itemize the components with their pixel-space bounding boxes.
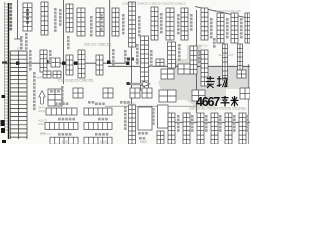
rack top-8 (181, 8, 188, 40)
ladder rack right-B (238, 44, 243, 70)
text column 18 (150, 50, 153, 67)
junction blob 1 (16, 62, 19, 65)
text column 10 (177, 14, 180, 34)
svg-text:9600: 9600 (100, 140, 107, 144)
rack bottom-right-6 (239, 113, 246, 144)
text column 13 (226, 18, 229, 38)
rack bottom-right-2 (183, 113, 190, 144)
text column 34 (233, 115, 236, 132)
right arrow (130, 81, 150, 86)
text column 28 (152, 108, 155, 125)
table left-b (53, 71, 61, 78)
left wall tick (2, 62, 7, 64)
table gray-c (159, 90, 176, 102)
table gray-a (161, 69, 174, 79)
text column 6 (100, 14, 103, 31)
text column 31 (191, 115, 194, 132)
junction blob 5 (126, 62, 129, 65)
text column 22 (29, 50, 32, 70)
rack top-7 (166, 8, 174, 40)
table gray-b (178, 64, 190, 74)
rack top-6 (151, 7, 158, 40)
svg-text:C19 C23(C22) C24(C25): C19 C23(C22) C24(C25) (58, 79, 93, 83)
svg-text:SEN2(C4)T: SEN2(C4)T (218, 53, 234, 57)
table left-c (48, 89, 62, 100)
shaded region right patch (215, 89, 226, 101)
wall x131 (131, 47, 133, 105)
table center-b (103, 88, 113, 98)
rack top-3 (77, 8, 85, 36)
text column 17 (136, 44, 139, 64)
rack mid-right-2 (201, 50, 208, 86)
text column 11 (190, 14, 193, 31)
shaded region top column (187, 45, 201, 67)
svg-text:A40 C32: A40 C32 (124, 102, 136, 106)
stockroom rect b (158, 105, 169, 128)
shelf bottom row2-b (84, 123, 112, 130)
label wenju (55, 103, 68, 106)
svg-text:C42(C43)(C44) C45: C42(C43)(C44) C45 (214, 9, 241, 13)
rack top-4 (96, 8, 104, 36)
svg-text:C34: C34 (40, 131, 46, 135)
text column 33 (219, 115, 222, 132)
svg-text:A4C2: A4C2 (38, 122, 46, 126)
text 平 (ping) (221, 96, 230, 107)
text column 7 (122, 14, 125, 34)
text column 21 (33, 72, 36, 110)
rack top-10 (217, 13, 224, 43)
shelf bottom row3-b (84, 137, 112, 144)
rack top-11 (231, 13, 238, 43)
text column 30 (177, 115, 180, 132)
text column 32 (205, 115, 208, 132)
staircase (10, 51, 27, 139)
label zuleng (95, 103, 105, 106)
shelf bottom row3-a (50, 137, 78, 144)
dark label chu-qin (127, 58, 134, 61)
svg-text:C26 C27 C28(C29): C26 C27 C28(C29) (84, 43, 111, 47)
text column 8 (138, 16, 141, 36)
table left-a (43, 71, 51, 78)
wall x196 (196, 10, 198, 113)
rack bottom-right-5 (225, 113, 232, 144)
text column 27 (213, 38, 216, 48)
text column 26 (61, 86, 64, 103)
text column 1 (10, 3, 13, 30)
text column 2 (25, 33, 28, 50)
rack mid-right-1 (190, 46, 197, 74)
right border (247, 64, 249, 144)
roof diagonal (195, 7, 250, 19)
rack mid-5 (168, 42, 176, 68)
text column 25 (67, 36, 70, 49)
text inside rack top-1 (26, 9, 29, 24)
rack tall center-lower (141, 36, 149, 90)
rack bottom-right-4 (211, 113, 218, 144)
left edge mark 2 (1, 120, 5, 126)
shelf bottom row1-a (46, 108, 77, 115)
text column 12 (210, 18, 213, 38)
left edge mark 3 (1, 128, 5, 133)
table center-c (130, 88, 140, 98)
junction blob 4 (107, 61, 110, 64)
stair-side blob (46, 60, 49, 63)
svg-text:C17: C17 (17, 47, 23, 51)
table left-c lower (48, 100, 62, 106)
ladder rack right-A (223, 44, 228, 80)
text column 23 (20, 36, 23, 49)
svg-text:9600: 9600 (62, 140, 69, 144)
svg-text:A4(1): A4(1) (38, 109, 45, 113)
arrow tail mark (127, 82, 130, 85)
rack top-1 (23, 3, 32, 31)
svg-text:4667: 4667 (196, 95, 220, 109)
rack bottom-center ladder (129, 105, 136, 144)
text column 20 (198, 50, 201, 63)
svg-text:9600: 9600 (140, 140, 147, 144)
label under box-b (88, 101, 94, 104)
text column 19 (178, 44, 181, 61)
table band-b (156, 59, 164, 66)
rack tall center-upper (129, 2, 136, 47)
text column 35 (246, 115, 249, 132)
table center-a (73, 88, 83, 98)
text column 3 (54, 8, 57, 32)
wall x17 (17, 0, 19, 39)
junction blob 2 (62, 62, 65, 65)
label below stockroom2 (139, 137, 145, 140)
table right-a (192, 90, 205, 101)
table center-d (142, 88, 152, 98)
rack bottom-right-1 (168, 113, 175, 144)
table right-b (240, 88, 250, 99)
rack mid-2 (78, 50, 85, 78)
shelf bottom row2-a (45, 123, 78, 130)
left main wall (8, 3, 10, 139)
main aisle wall left (2, 62, 129, 64)
text 米 (mi) (231, 96, 239, 107)
text 卖 (sale) (206, 76, 215, 88)
label below stockroom (138, 132, 148, 135)
wall x63 (63, 0, 65, 84)
rack mid-3 (96, 55, 103, 75)
table stair-side (51, 58, 60, 67)
text column 29 (124, 106, 127, 130)
shaded region upper-left block (172, 59, 199, 67)
svg-text:2400: 2400 (135, 60, 142, 64)
up arrow (39, 91, 45, 104)
svg-text:41(RC)9: 41(RC)9 (36, 76, 48, 80)
shaded region main band (158, 66, 250, 100)
rack top-2 (41, 2, 48, 35)
stockroom rect a (138, 107, 152, 130)
left edge mark 4 (2, 140, 6, 143)
label jiaju (58, 118, 75, 121)
wall x110 (109, 0, 111, 63)
svg-text:C39(C2): C39(C2) (196, 44, 207, 48)
text column 24 (49, 50, 52, 63)
label jiafang (95, 133, 108, 136)
text column 15 (112, 49, 115, 66)
text column 4 (59, 9, 62, 26)
rack top-3a (66, 4, 73, 32)
svg-text:C34(C3) C35(C3) C36(C37) C38(C: C34(C3) C35(C3) C36(C37) C38(C3 (137, 2, 186, 6)
left dimension ladder (5, 2, 9, 132)
rack top-9 (201, 8, 208, 40)
junction blob 3 (74, 62, 77, 65)
shaded region lower patch (178, 89, 215, 107)
mid lower wall (105, 105, 196, 107)
label near box left-c (50, 90, 60, 93)
rack top-12 (245, 13, 250, 43)
label kongtiao (58, 133, 71, 136)
rack top-5 (112, 8, 119, 36)
text column 5 (90, 16, 93, 36)
rack mid-1 (66, 55, 73, 75)
rack stair-side (40, 50, 47, 72)
table mid-right-d (237, 70, 246, 78)
text 场 (floor) (217, 76, 227, 87)
label guizi (98, 118, 108, 121)
rack bottom-center-2 (157, 131, 164, 144)
text column 9 (160, 13, 163, 33)
rack bottom-right-3 (197, 113, 204, 144)
label under box-c (120, 101, 130, 104)
text column 14 (240, 18, 243, 38)
lower right wall (164, 121, 250, 123)
text column 16 (124, 50, 127, 63)
svg-text:C36(C35): C36(C35) (122, 2, 135, 6)
main aisle wall right (108, 65, 250, 67)
left edge mark 1 (2, 95, 6, 98)
shelf bottom row1-b (84, 108, 112, 115)
